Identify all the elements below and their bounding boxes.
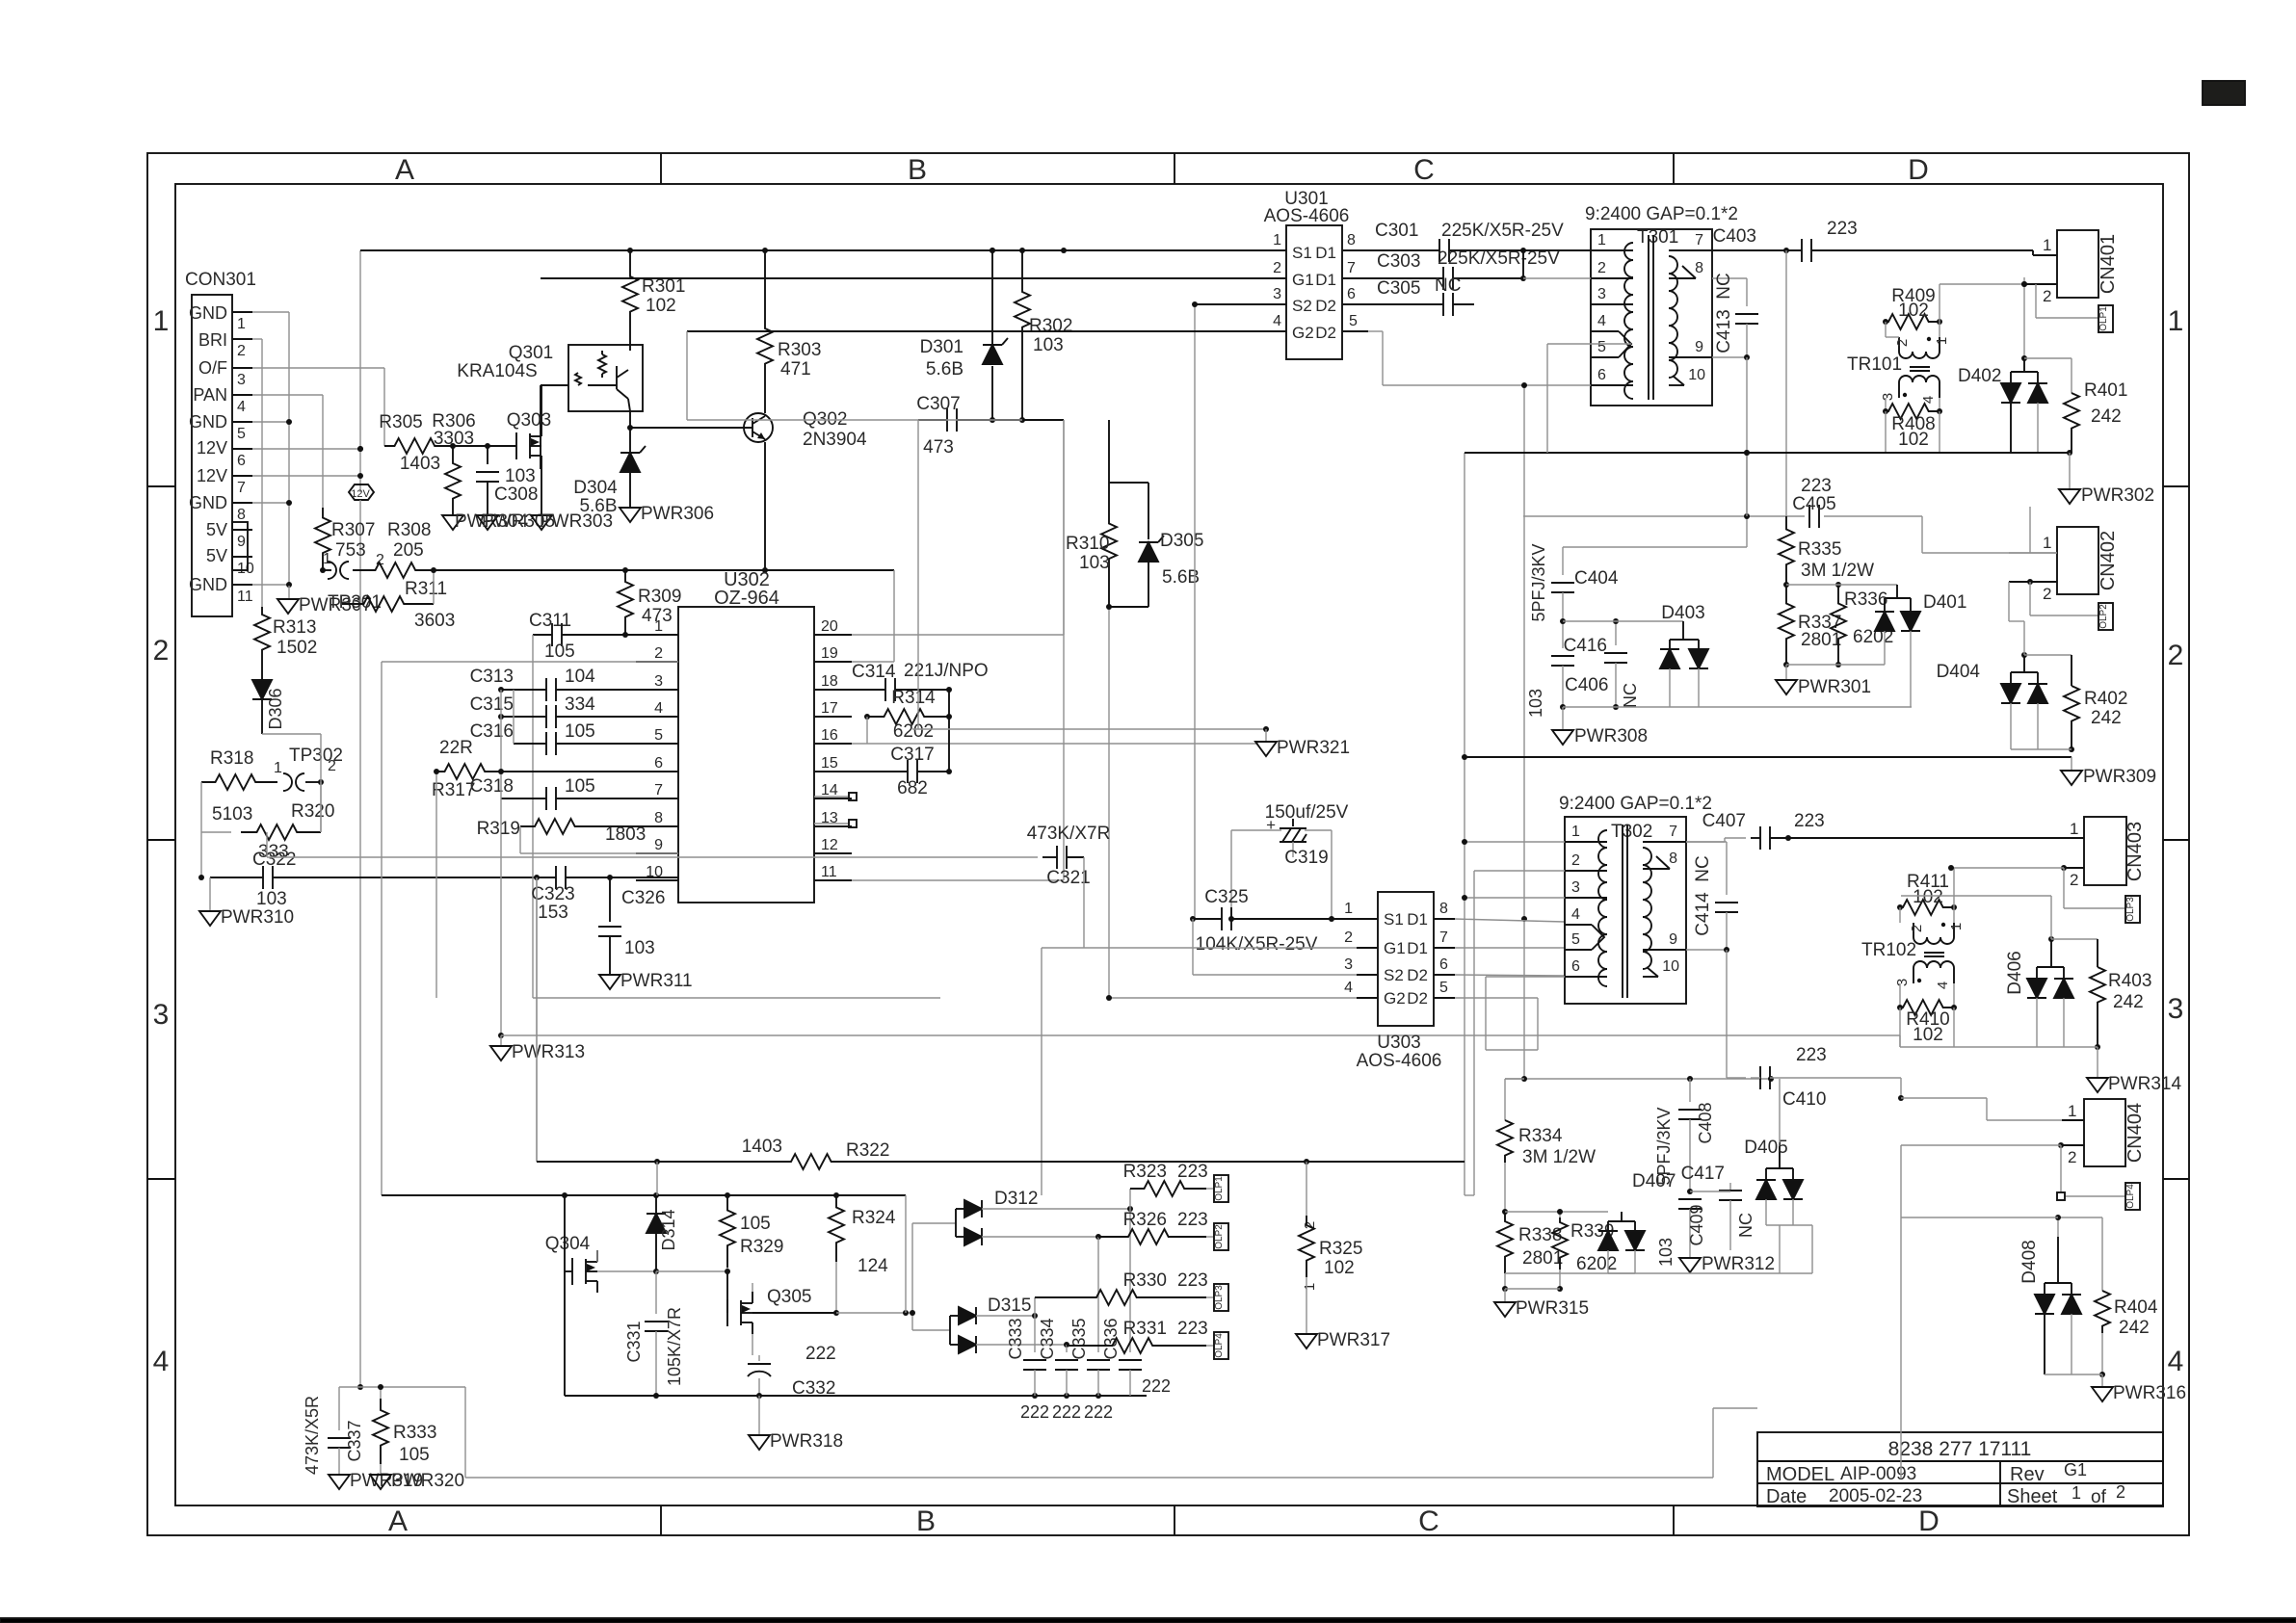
wire Q301 base drive [541,385,568,469]
svg-text:C406: C406 [1565,675,1608,695]
svg-text:R329: R329 [740,1237,783,1257]
diode D315 [912,1296,1069,1353]
IC U303 AOS-4606 [1357,892,1442,1071]
svg-text:205: 205 [393,540,424,561]
svg-text:NC: NC [1621,683,1640,708]
svg-text:9: 9 [654,837,663,853]
svg-text:AOS-4606: AOS-4606 [1357,1051,1442,1071]
wire block bottom row [1505,1225,1812,1273]
resistor R330 [1035,1270,1214,1316]
mosfet Q303 [507,385,551,515]
svg-text:5V: 5V [206,546,227,565]
wire G1 row [541,277,1286,279]
capacitor C301 [1375,221,1591,262]
resistor R337 [1779,585,1841,668]
svg-text:C318: C318 [470,776,514,797]
svg-text:R324: R324 [852,1208,896,1228]
zone label 2 right [2168,640,2184,671]
svg-text:3603: 3603 [414,611,455,631]
svg-text:C417: C417 [1681,1164,1725,1184]
wire U303 G1 row [1042,948,1357,1195]
svg-text:PWR301: PWR301 [1798,677,1871,697]
svg-text:682: 682 [897,778,928,798]
resistor R322 [537,877,1465,1169]
U303 pin stubs [1344,901,1455,998]
svg-text:C413 NC: C413 NC [1714,273,1734,353]
link OLP4 bottom [1214,1332,1228,1359]
svg-text:223: 223 [1794,811,1825,831]
zone tick left 2/3 [147,839,175,841]
ground PWR302 [2059,453,2154,506]
zone tick left 1/2 [147,485,175,487]
svg-text:C333: C333 [1006,1318,1025,1359]
svg-text:C317: C317 [890,745,934,765]
svg-text:D301: D301 [920,337,963,357]
U302 pin14 no-connect [814,793,857,800]
svg-text:5.6B: 5.6B [926,359,963,380]
svg-text:471: 471 [780,359,811,380]
svg-text:2: 2 [1571,852,1580,869]
svg-text:CN402: CN402 [2098,531,2119,590]
resistor R310 [1066,420,1148,998]
resistor R313 [254,607,317,665]
title value G1 [2064,1460,2087,1479]
wire U302 pin2 net down [382,662,678,1195]
svg-text:OLP1: OLP1 [2098,306,2109,331]
svg-text:PWR303: PWR303 [540,511,613,532]
ground PWR307 [277,595,372,615]
svg-text:Q301: Q301 [509,343,553,363]
svg-text:5PFJ/3KV: 5PFJ/3KV [1529,543,1548,621]
resistor R324 [829,1195,896,1316]
wire R305 to Q303 gate [446,443,516,449]
svg-text:20: 20 [821,618,838,635]
transformer TR101 [1847,286,1950,450]
svg-text:R323: R323 [1123,1162,1167,1182]
svg-text:GND: GND [189,303,227,323]
svg-text:TR102: TR102 [1861,940,1916,960]
svg-text:1: 1 [1948,923,1965,930]
svg-text:1: 1 [1344,901,1353,917]
svg-text:A: A [388,1505,408,1537]
svg-text:PWR315: PWR315 [1516,1298,1589,1319]
link OLP1 bottom [1214,1175,1228,1202]
svg-text:TP302: TP302 [289,746,343,766]
svg-text:2: 2 [2116,1482,2125,1502]
ground PWR317 [1296,1330,1390,1350]
svg-text:D403: D403 [1661,603,1704,623]
wire S2 net [1194,304,1196,919]
svg-text:222: 222 [1084,1402,1113,1422]
svg-text:R322: R322 [846,1140,889,1161]
svg-text:3: 3 [1597,286,1606,302]
svg-text:PWR321: PWR321 [1277,738,1350,758]
svg-text:2: 2 [2070,871,2078,889]
ground PWR320 [370,1471,464,1491]
svg-text:D2: D2 [1315,324,1336,342]
capacitor C318 [470,769,678,998]
svg-text:D402: D402 [1958,366,2001,386]
svg-text:O/F: O/F [198,358,227,378]
svg-text:225K/X5R-25V: 225K/X5R-25V [1438,249,1560,269]
transformer T301 [1585,204,1738,406]
svg-text:105: 105 [399,1445,430,1465]
svg-text:G1: G1 [1384,939,1406,957]
diode pair D405 [1744,1076,1803,1225]
svg-text:C337: C337 [345,1420,364,1461]
svg-text:5PFJ/3KV: 5PFJ/3KV [1654,1107,1674,1185]
svg-text:R320: R320 [291,801,334,822]
svg-text:1403: 1403 [400,454,440,474]
svg-text:2005-02-23: 2005-02-23 [1829,1486,1922,1506]
svg-text:222: 222 [805,1344,836,1364]
svg-text:2: 2 [153,635,170,667]
title block frame [1757,1432,2163,1506]
svg-text:of: of [2091,1487,2107,1507]
scan edge bar bottom [0,1618,2296,1623]
svg-text:C301: C301 [1375,221,1418,241]
svg-text:105: 105 [740,1214,771,1234]
svg-text:B: B [908,154,927,186]
svg-text:103: 103 [505,466,536,486]
capacitor C308 [476,446,538,515]
svg-text:4: 4 [1571,906,1580,923]
connector CN403 [1951,817,2146,889]
zener D304 [573,411,646,516]
connector CN402 [2009,527,2119,603]
zone tick right 1/2 [2163,485,2189,487]
svg-text:R307: R307 [331,520,375,540]
zone label 4 left [153,1346,170,1377]
resistor R302 [1015,248,1072,420]
zone tick top B/C [1174,153,1175,184]
wire U301 pin5 to T301 pin6 row [1368,331,1527,388]
title value of 2 [2116,1482,2125,1502]
diode D306 [252,665,321,734]
svg-text:10: 10 [237,561,254,577]
svg-text:R401: R401 [2084,380,2127,401]
svg-text:4: 4 [654,700,663,717]
svg-text:NC: NC [1435,275,1461,296]
svg-text:C319: C319 [1284,848,1328,868]
title value 2005-02-23 [1829,1486,1922,1506]
resistor R319 [477,819,678,853]
mosfet Q305 [727,1195,912,1355]
svg-text:4: 4 [1935,982,1951,989]
transistor Q302 2N3904 [627,381,867,570]
capacitor C319 150uf/25V [1228,802,1349,922]
resistor R320 [201,734,334,862]
svg-text:D304: D304 [573,478,618,498]
svg-text:105: 105 [565,776,595,797]
svg-text:8: 8 [1439,901,1448,917]
link OLP2 bottom [1214,1223,1228,1250]
svg-text:753: 753 [335,540,366,561]
resistor R326 [1098,1210,1214,1244]
svg-text:Rev: Rev [2010,1464,2045,1485]
wire GND bus from CON301 pins 1/5/8/11 [252,312,292,599]
svg-text:D1: D1 [1315,244,1336,262]
svg-text:1: 1 [2168,305,2184,337]
svg-text:PWR318: PWR318 [770,1431,843,1452]
svg-text:1: 1 [2072,1483,2081,1503]
wire R336/R337 bottom node [1786,665,1885,680]
ground PWR318 [749,1396,843,1452]
svg-text:4: 4 [153,1346,170,1377]
svg-text:PWR320: PWR320 [391,1471,464,1491]
svg-text:Q304: Q304 [545,1234,591,1254]
svg-text:R318: R318 [210,748,253,769]
svg-text:105: 105 [544,641,575,662]
svg-text:3: 3 [153,999,170,1031]
svg-text:OLP1: OLP1 [1214,1176,1225,1201]
svg-text:223: 223 [1801,476,1832,496]
svg-text:D306: D306 [266,688,285,729]
capacitor C316 [470,721,678,755]
svg-text:2: 2 [1894,339,1911,347]
zone tick top A/B [660,153,662,184]
svg-text:BRI: BRI [198,330,227,350]
svg-text:7: 7 [654,782,663,798]
ground PWR311 [599,971,693,991]
svg-text:C325: C325 [1204,887,1248,907]
capacitor C321 [267,824,1110,948]
svg-text:CON301: CON301 [185,270,256,290]
capacitor C303 [1376,249,1560,290]
resistor R335 [1779,516,1874,588]
svg-text:C334: C334 [1038,1318,1057,1359]
capacitor C404 [1529,543,1619,621]
registration mark top right [2203,81,2245,105]
wire C403 tap down to R335 [1785,250,1787,516]
link OLP1 [2036,284,2113,332]
svg-text:2: 2 [1909,925,1925,932]
svg-text:R402: R402 [2084,689,2127,709]
title value sheet 1 [2072,1483,2081,1503]
svg-text:2: 2 [654,645,663,662]
diode D312 [910,1189,1133,1330]
svg-text:8: 8 [1695,260,1703,276]
ground PWR315 [1494,1298,1589,1319]
wire U302 pin11 row [852,879,1064,881]
svg-text:5103: 5103 [212,804,252,825]
zener diode D301 [920,248,1008,420]
wire U302 pin9 loop [520,853,940,998]
capacitor C315 [470,694,678,728]
svg-text:C314: C314 [852,662,896,682]
svg-text:4: 4 [237,399,246,415]
svg-text:C311: C311 [529,611,571,631]
svg-text:103: 103 [256,889,287,909]
capacitor C305 [1376,275,1474,316]
svg-text:D1: D1 [1315,271,1336,289]
svg-text:1803: 1803 [605,825,646,845]
resistor R336 [1831,582,1893,668]
svg-text:G1: G1 [1292,271,1314,289]
svg-text:PWR313: PWR313 [512,1042,585,1062]
svg-text:102: 102 [1913,887,1943,907]
svg-text:MODEL: MODEL [1766,1464,1834,1485]
svg-text:9: 9 [1695,339,1703,355]
svg-text:1: 1 [1597,232,1606,249]
wire 12V bus pins 6/7 [252,250,363,492]
svg-text:D1: D1 [1407,910,1428,929]
ground PWR310 [199,877,294,928]
svg-text:R326: R326 [1123,1210,1167,1230]
svg-text:T301: T301 [1637,227,1678,248]
zone label C bottom [1418,1505,1439,1537]
svg-text:PWR308: PWR308 [1574,726,1648,746]
svg-text:Sheet: Sheet [2007,1486,2058,1507]
svg-text:223: 223 [1177,1319,1208,1339]
title label MODEL [1766,1464,1834,1485]
svg-text:7: 7 [237,480,246,496]
svg-text:3: 3 [1571,879,1580,896]
capacitor C331 [624,1271,684,1396]
capacitor C408 [1654,1079,1715,1191]
capacitor C407 [1686,811,2084,850]
svg-text:9:2400 GAP=0.1*2: 9:2400 GAP=0.1*2 [1559,794,1712,814]
wire bottom-left L run [339,1384,1757,1478]
link OLP3 [2064,868,2140,923]
zone label 1 right [2168,305,2184,337]
svg-text:C316: C316 [470,721,514,742]
svg-text:3: 3 [1880,393,1896,401]
ground PWR314 [2087,1074,2181,1094]
wire 12V top rail [357,248,1286,452]
svg-text:R303: R303 [778,340,821,360]
svg-text:C416: C416 [1564,636,1607,656]
wire mid vertical bus [1063,420,1065,880]
svg-text:103: 103 [1526,689,1545,718]
svg-text:R311: R311 [405,579,447,599]
border frame outer [147,153,2189,1535]
svg-text:1: 1 [237,316,246,332]
svg-text:15: 15 [821,755,838,772]
ground PWR306 [620,504,714,524]
wire U302 pin19 [852,661,894,663]
svg-text:D405: D405 [1744,1138,1787,1158]
svg-text:R404: R404 [2114,1297,2158,1318]
svg-text:C335: C335 [1069,1318,1089,1359]
resistor R301 [622,250,685,345]
svg-text:G2: G2 [1384,989,1406,1008]
svg-text:R314: R314 [891,688,936,708]
svg-text:PWR316: PWR316 [2113,1383,2186,1403]
svg-text:2: 2 [1597,260,1606,276]
wire block outline right [1465,1194,1474,1196]
resistor R323 [1123,1162,1214,1209]
svg-text:A: A [395,154,414,186]
wire S2 row [1192,301,1286,307]
svg-text:TP301: TP301 [328,592,382,613]
svg-text:D: D [1918,1505,1940,1537]
svg-text:4: 4 [1597,313,1606,329]
IC U302 OZ-964 [678,569,814,903]
svg-text:TR101: TR101 [1847,354,1902,375]
svg-text:2: 2 [2068,1148,2076,1166]
svg-text:GND: GND [189,493,227,512]
diode D314 [647,1195,678,1271]
wire U303 G2 row [1106,995,1357,1001]
svg-text:R330: R330 [1123,1270,1167,1291]
capacitor C417 [1681,1164,1755,1250]
wire U303 S2 row [1193,974,1357,976]
svg-text:C331: C331 [624,1321,644,1362]
svg-text:2: 2 [2043,287,2051,305]
opto transistor Q301 KRA104S [457,343,643,411]
svg-text:12: 12 [821,837,838,853]
svg-text:D: D [1908,154,1929,186]
svg-text:R319: R319 [477,819,520,839]
svg-text:5: 5 [1571,931,1580,948]
wire T301 pin6 down [1505,385,1771,1082]
svg-text:D406: D406 [2005,951,2025,994]
svg-text:R331: R331 [1123,1319,1167,1339]
svg-text:U303: U303 [1377,1033,1420,1053]
svg-text:473K/X7R: 473K/X7R [1027,824,1111,844]
resistor R329 [656,1195,783,1274]
svg-text:22R: 22R [439,738,473,758]
svg-text:CN403: CN403 [2124,822,2146,881]
wire O/F pin3 to R305 gate net [252,368,384,446]
zone label B bottom [916,1505,936,1537]
svg-text:R305: R305 [379,412,422,432]
wire secondary return bus 2 [1465,746,2074,757]
zone tick right 2/3 [2163,839,2189,841]
svg-text:S2: S2 [1384,966,1404,984]
svg-text:D401: D401 [1923,592,1966,613]
svg-text:1: 1 [654,618,663,635]
connector CON301 [185,270,256,616]
svg-text:19: 19 [821,645,838,662]
svg-text:PWR302: PWR302 [2081,485,2154,506]
svg-text:153: 153 [538,903,568,923]
svg-text:Q303: Q303 [507,410,551,431]
svg-text:150uf/25V: 150uf/25V [1265,802,1349,823]
svg-text:4: 4 [1344,980,1353,996]
capacitor C416 [1563,618,1912,710]
svg-text:2N3904: 2N3904 [803,430,867,450]
svg-text:7: 7 [1347,260,1356,276]
capacitor C311 [529,611,625,853]
svg-text:AIP-0093: AIP-0093 [1840,1464,1916,1484]
title label Date [1766,1486,1807,1507]
wire C314/R314/C317 junction [946,687,952,774]
svg-text:3: 3 [1344,956,1353,973]
svg-text:7: 7 [1439,929,1448,946]
svg-text:S2: S2 [1292,297,1312,315]
ground PWR304 [442,511,528,532]
resistor R307 [315,508,375,570]
wire C303 node to T301 pin2 [1523,277,1591,279]
svg-text:7: 7 [1695,232,1703,249]
capacitor C406 [1526,618,1608,718]
svg-text:D312: D312 [994,1189,1038,1209]
U302 left pin stubs [636,618,678,880]
svg-text:1: 1 [2070,820,2078,838]
svg-text:3M 1/2W: 3M 1/2W [1522,1147,1596,1167]
svg-text:2: 2 [1273,260,1281,276]
svg-text:Q305: Q305 [767,1287,811,1307]
zone tick bottom C/D [1673,1505,1675,1535]
svg-text:S1: S1 [1292,244,1312,262]
svg-text:D408: D408 [2019,1240,2040,1283]
resistor R311 [342,567,455,631]
svg-text:2: 2 [1344,929,1353,946]
diode pair D401 [1875,585,1966,707]
svg-text:2801: 2801 [1522,1248,1563,1269]
